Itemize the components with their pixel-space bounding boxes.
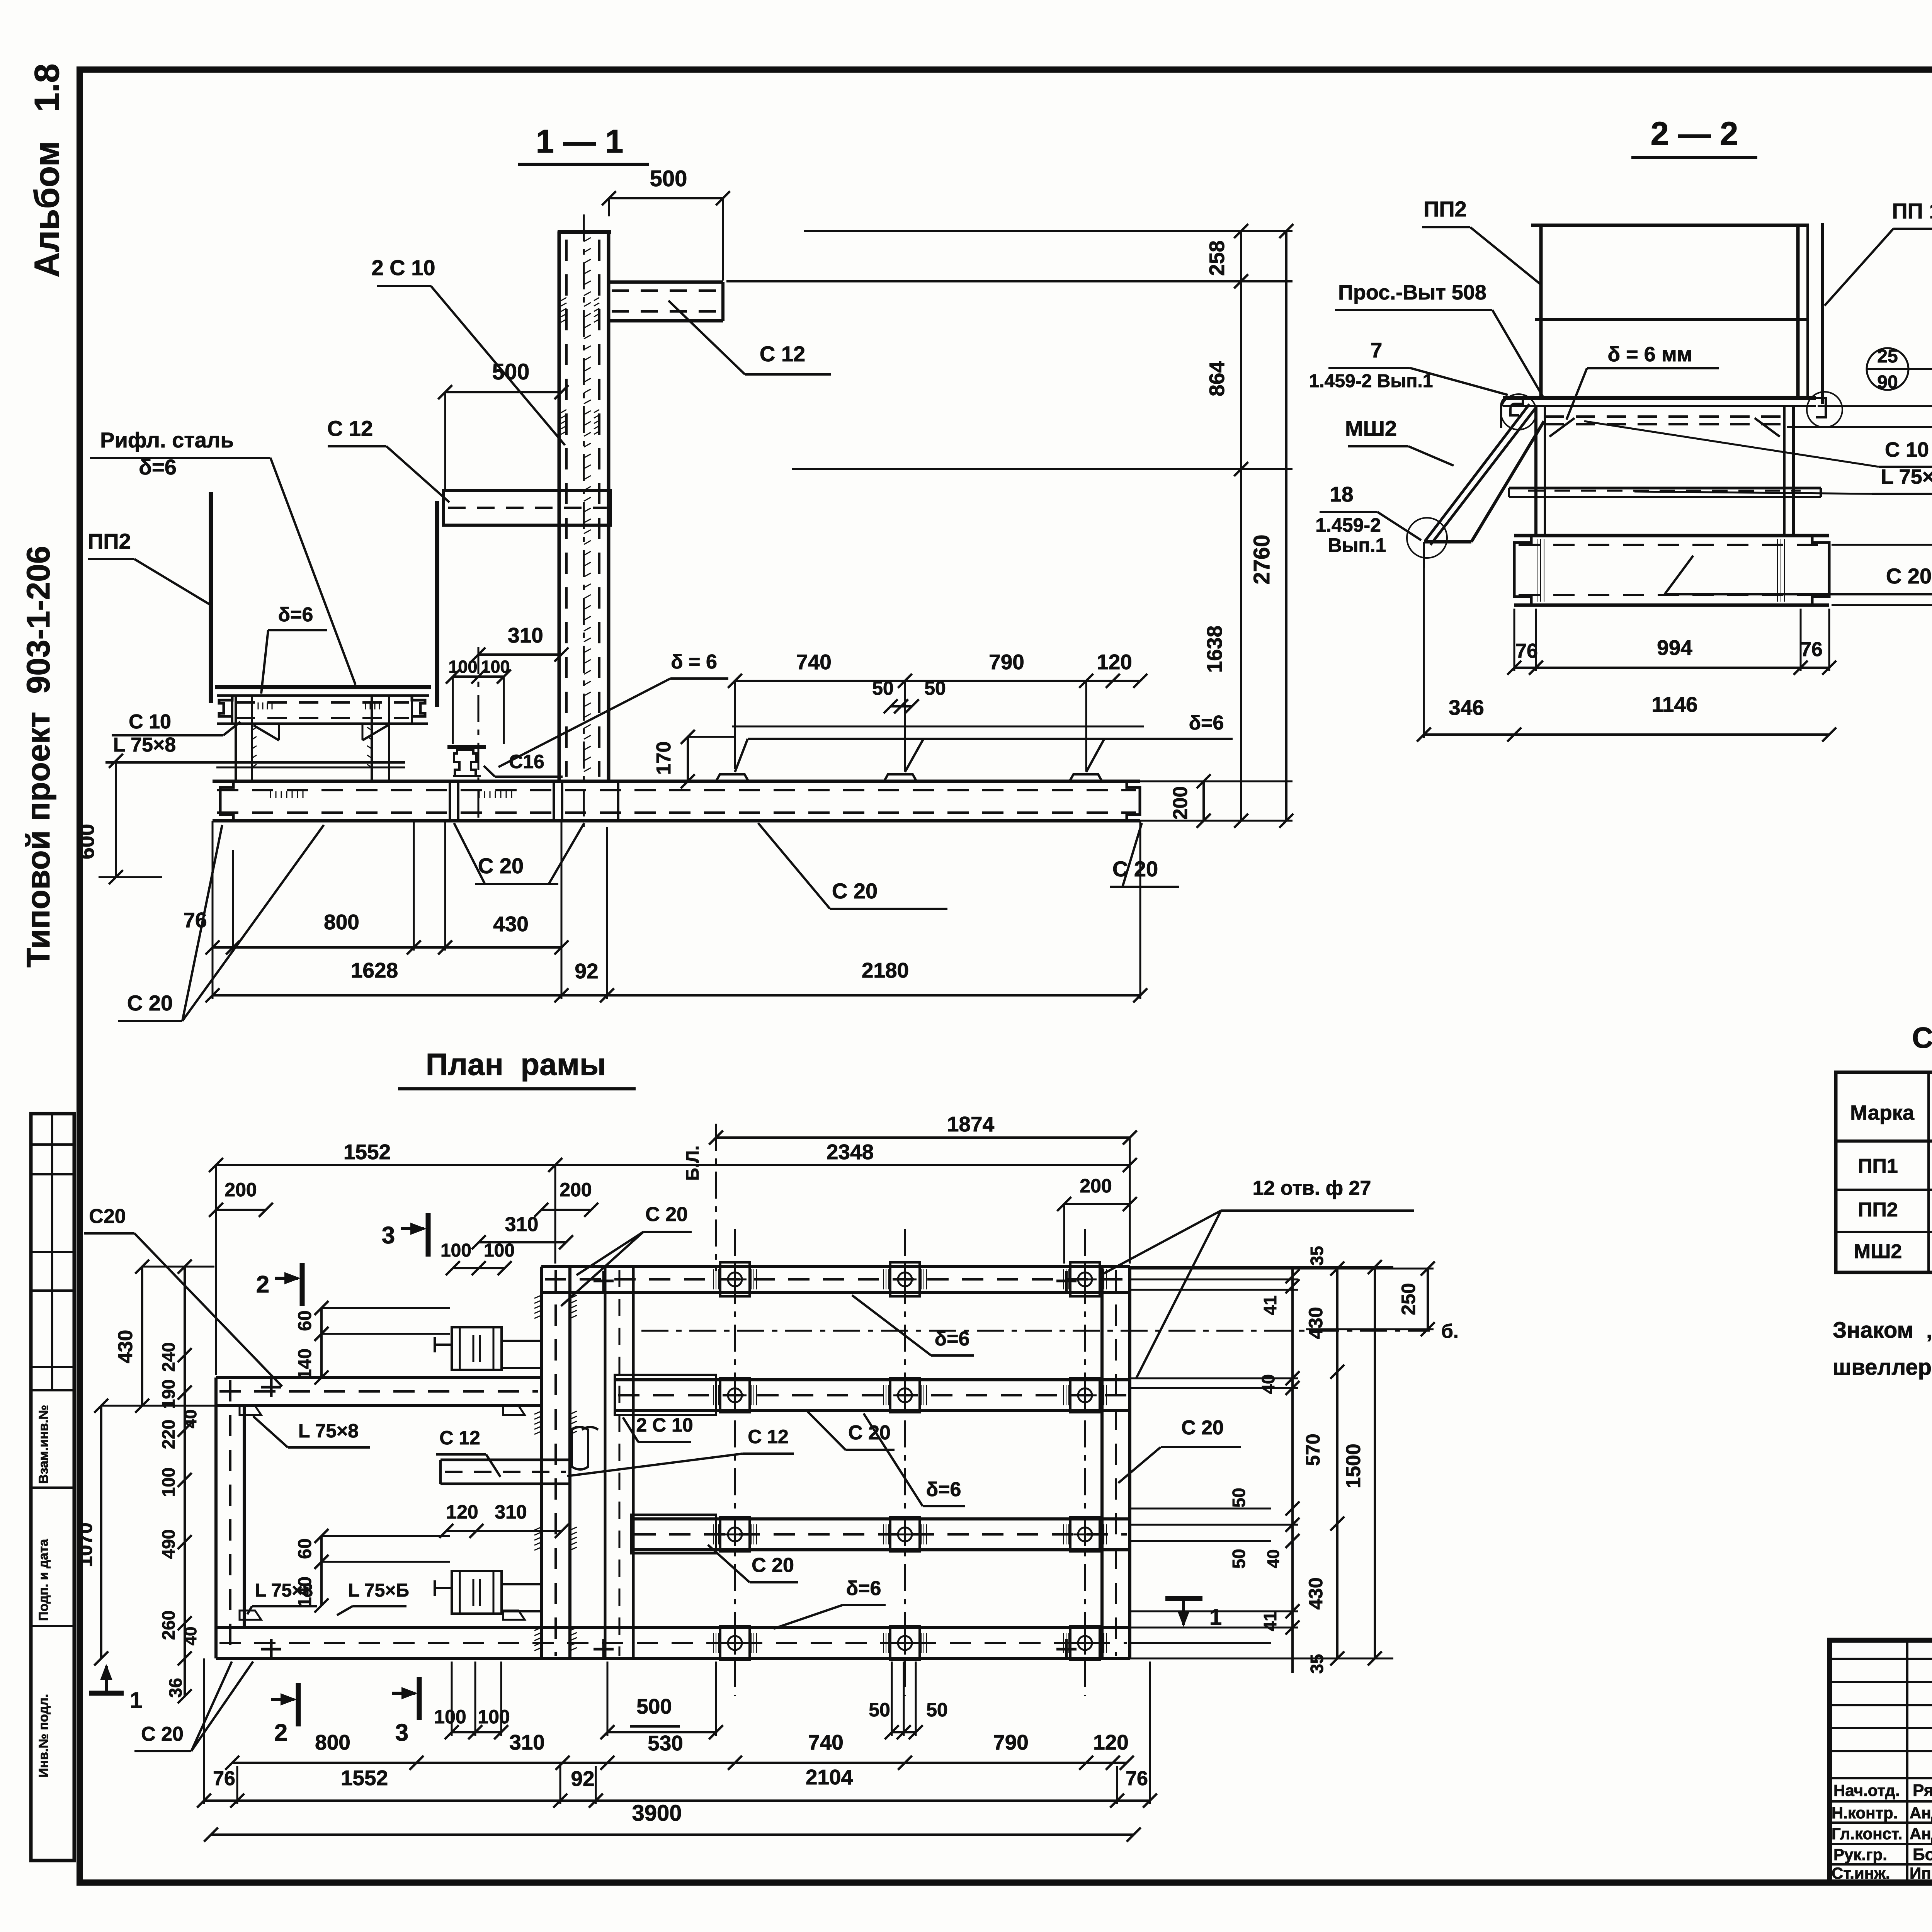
svg-text:36: 36 [165,1678,185,1697]
svg-text:90: 90 [1877,372,1898,393]
svg-text:1146: 1146 [1651,692,1697,716]
svg-text:50: 50 [1229,1549,1249,1568]
column 2C10 section 1-1 [558,231,561,781]
svg-text:L 75×8: L 75×8 [113,734,176,756]
platform bottom flange section 1-1 [217,723,428,725]
svg-text:310: 310 [509,1730,545,1754]
svg-text:50: 50 [1229,1488,1249,1507]
svg-text:2348: 2348 [827,1140,874,1164]
svg-text:Инв.№ подл.: Инв.№ подл. [36,1694,51,1777]
svg-text:δ=6: δ=6 [935,1328,970,1350]
platform posts section 1-1 [235,696,237,781]
svg-text:40: 40 [181,1410,200,1429]
svg-text:С 20: С 20 [1886,564,1932,588]
svg-text:δ=6: δ=6 [278,604,313,626]
svg-text:260: 260 [158,1611,179,1640]
spec table verticals [1927,1072,1930,1272]
svg-text:С 12: С 12 [327,416,373,440]
svg-text:35: 35 [1307,1246,1327,1265]
svg-text:ПП2: ПП2 [1858,1199,1898,1221]
svg-text:120: 120 [1097,650,1132,674]
title block left signature columns [1906,1640,1908,1883]
svg-text:190: 190 [158,1379,179,1409]
svg-text:δ = 6 мм: δ = 6 мм [1607,343,1692,366]
plan left portion top channel [216,1376,541,1379]
svg-text:Ст.инж.: Ст.инж. [1832,1864,1890,1882]
svg-text:50: 50 [869,1699,890,1721]
title block outer frame [1830,1640,1932,1883]
svg-text:С 12: С 12 [760,342,805,366]
svg-text:2104: 2104 [806,1765,853,1789]
svg-text:200: 200 [560,1179,592,1201]
svg-text:41: 41 [1260,1295,1280,1315]
svg-text:140: 140 [295,1349,315,1379]
plan extension lines right [1130,1266,1393,1268]
marker circle 25 90 [1867,348,1908,390]
svg-text:200: 200 [224,1179,257,1201]
plan central column weld ticks [534,1295,541,1298]
svg-text:40: 40 [1258,1374,1278,1394]
svg-text:С 12: С 12 [439,1427,480,1449]
svg-text:1 — 1: 1 — 1 [536,123,624,160]
middle beam C12 section 1-1 [444,490,611,525]
svg-text:200: 200 [1080,1175,1112,1197]
base channel section 2-2 [1514,534,1829,537]
svg-text:1.459-2: 1.459-2 [1315,514,1381,536]
plan central column lines [540,1267,543,1658]
section mark 1 right plan [1165,1596,1202,1601]
svg-text:С16: С16 [509,751,544,772]
svg-text:170: 170 [653,742,675,775]
svg-text:35: 35 [1307,1654,1327,1673]
left stamp column box [31,1114,74,1861]
plan axis b horizontal [641,1330,1430,1332]
svg-text:2: 2 [256,1271,269,1298]
stamp column divider [51,1114,53,1390]
svg-text:3900: 3900 [632,1801,682,1826]
svg-text:76: 76 [1126,1767,1148,1790]
svg-text:МШ2: МШ2 [1345,416,1397,440]
svg-text:1.459-2 Вып.1: 1.459-2 Вып.1 [1309,371,1433,391]
svg-text:310: 310 [505,1213,539,1236]
plan right edge channel [1100,1267,1104,1658]
svg-text:L 75×8: L 75×8 [298,1420,359,1442]
svg-text:Андриевская: Андриевская [1910,1825,1932,1843]
svg-text:2 — 2: 2 — 2 [1651,116,1738,152]
plan rail3 left stub [631,1515,716,1553]
svg-text:740: 740 [808,1730,844,1754]
svg-text:60: 60 [295,1310,315,1331]
svg-text:120: 120 [446,1501,478,1523]
plan rail2 left stub 2C10 [615,1375,716,1415]
svg-text:864: 864 [1205,361,1229,396]
svg-text:100: 100 [434,1706,466,1728]
svg-text:ПП2: ПП2 [1423,197,1467,221]
svg-text:430: 430 [114,1330,137,1364]
plan C12 stub beam [440,1459,570,1461]
svg-text:430: 430 [493,912,529,936]
svg-text:40: 40 [181,1627,200,1646]
guard rail PP2 top section 2-2 [1531,224,1809,227]
svg-text:Андриевская: Андриевская [1910,1804,1932,1822]
svg-text:1552: 1552 [344,1140,391,1164]
svg-text:2760: 2760 [1249,534,1274,584]
spec table horizontals [1836,1139,1932,1143]
svg-text:С 20: С 20 [645,1203,688,1226]
svg-text:490: 490 [158,1529,179,1559]
plan clamp C16 bottom [452,1571,502,1614]
svg-text:40: 40 [1264,1549,1283,1568]
svg-text:18: 18 [1330,482,1353,506]
top bracket beam C12 section 1-1 [609,281,723,284]
svg-text:500: 500 [636,1694,672,1718]
svg-text:1070: 1070 [74,1522,97,1567]
plan 2C10 column lines [604,1267,607,1658]
svg-text:δ=6: δ=6 [846,1577,881,1600]
svg-text:800: 800 [315,1730,350,1754]
svg-text:1628: 1628 [351,958,398,982]
svg-text:L 75×Б: L 75×Б [348,1580,409,1601]
svg-text:500: 500 [650,166,687,191]
svg-text:530: 530 [648,1731,683,1755]
svg-text:120: 120 [1093,1730,1129,1754]
svg-text:50: 50 [872,677,894,699]
under-floor beam C10 section 2-2 [1545,415,1784,418]
svg-text:Рифл. сталь: Рифл. сталь [100,428,234,452]
svg-text:2: 2 [274,1719,287,1746]
svg-text:С 20: С 20 [478,854,524,878]
svg-text:76: 76 [1515,640,1538,662]
svg-text:76: 76 [213,1767,235,1790]
plan rail 3 [631,1517,1130,1520]
angle L75x8 long line section 1-1 [105,761,405,764]
long extension lines top right section 1-1 [804,230,1293,232]
svg-text:Марка: Марка [1850,1101,1915,1124]
plan bolt pads row 4 [720,1626,750,1660]
guard post right section 1-1 [435,501,439,707]
svg-text:430: 430 [1305,1307,1327,1339]
section mark 1 left plan [89,1691,124,1696]
svg-text:С 10: С 10 [1885,438,1929,461]
svg-text:δ = 6: δ = 6 [671,651,717,673]
svg-text:500: 500 [492,359,530,384]
stamp column row lines [31,1143,74,1146]
svg-text:С20: С20 [89,1205,126,1228]
plan right dimension 430 570 430 [1336,1267,1338,1658]
svg-text:7: 7 [1371,338,1383,362]
plan bolt pads row 2 [720,1378,750,1412]
guard posts section 2-2 [1539,225,1543,398]
platform deck section 1-1 [215,685,431,689]
hook detail right platform edge section 2-2 [1816,398,1826,417]
svg-text:δ=6: δ=6 [1189,712,1224,734]
svg-text:12 отв. ф 27: 12 отв. ф 27 [1253,1177,1371,1199]
svg-text:740: 740 [796,650,832,674]
svg-text:Альбом 1.8: Альбом 1.8 [28,63,66,277]
svg-text:Ипполитова: Ипполитова [1910,1864,1932,1882]
svg-text:100: 100 [440,1240,471,1261]
plan plus marks [261,1386,281,1389]
svg-text:2 С 10: 2 С 10 [636,1414,693,1436]
svg-text:100: 100 [484,1240,515,1261]
svg-text:С 20: С 20 [832,879,878,903]
plan right portion top rail C20 [541,1265,1130,1268]
svg-text:1552: 1552 [341,1766,388,1790]
platform beam dashed lines section 1-1 [236,701,409,704]
ladder MSh2 section 2-2 [1425,404,1529,541]
svg-text:ПП2: ПП2 [88,529,131,553]
svg-text:800: 800 [324,910,359,934]
svg-text:200: 200 [1169,786,1192,820]
plan pad column centerlines [734,1229,736,1696]
svg-text:1: 1 [1209,1605,1222,1630]
platform braces section 1-1 [253,725,279,740]
svg-text:План рамы: План рамы [426,1047,606,1082]
plan left edge channel [214,1378,218,1658]
svg-text:Н.контр.: Н.контр. [1832,1804,1898,1822]
plan axis B.L. vertical [715,1124,717,1271]
svg-text:240: 240 [158,1342,179,1372]
plan rail 2 [615,1378,1130,1381]
svg-text:б.: б. [1441,1320,1459,1342]
anchor tabs on base section 1-1 [716,774,748,781]
svg-text:швеллера для крепления рам: швеллера для крепления рамы в полу. [1833,1355,1932,1380]
svg-text:76: 76 [183,908,207,932]
svg-text:L 75×8: L 75×8 [255,1580,313,1601]
svg-text:2 С 10: 2 С 10 [372,255,435,280]
svg-text:Б.Л.: Б.Л. [682,1146,702,1181]
svg-text:220: 220 [158,1420,179,1449]
svg-text:Типовой проект 903-1-206: Типовой проект 903-1-206 [20,546,56,968]
svg-text:ПП1: ПП1 [1858,1155,1898,1177]
platform C10 beam right end section 1-1 [412,696,425,716]
plan bolt pads row 1 [720,1262,750,1296]
svg-text:1: 1 [130,1688,142,1713]
svg-text:310: 310 [495,1501,527,1523]
plan right fine chain [1291,1267,1294,1673]
svg-text:Рябуха: Рябуха [1913,1781,1932,1800]
svg-text:1500: 1500 [1342,1444,1365,1488]
svg-text:С 20: С 20 [848,1422,891,1444]
svg-text:ПП 1: ПП 1 [1892,199,1932,223]
svg-text:С 20: С 20 [752,1554,794,1577]
svg-text:1874: 1874 [947,1112,995,1136]
svg-text:С 20: С 20 [1181,1417,1224,1439]
svg-text:1638: 1638 [1202,626,1226,673]
svg-text:92: 92 [571,1767,594,1791]
mid angle band section 2-2 [1509,487,1821,490]
plan left fine chain [184,1267,186,1696]
hook detail left platform edge section 2-2 [1501,397,1523,428]
svg-text:Спецификация типовых элементо: Спецификация типовых элементов [1912,1022,1932,1054]
svg-text:Взам.инв.№: Взам.инв.№ [36,1405,51,1484]
guard post PP2 left section 1-1 [209,492,213,703]
svg-text:Подп. и дата: Подп. и дата [36,1539,51,1621]
plan corner angles L75 [240,1406,261,1415]
svg-text:С 20: С 20 [1112,857,1158,881]
svg-text:Рук.гр.: Рук.гр. [1833,1845,1887,1864]
svg-text:60: 60 [295,1538,315,1559]
guard post PP1 section 2-2 [1821,223,1824,404]
svg-text:Знаком „+" обозначены отверс: Знаком „+" обозначены отверстия ф 23 мм … [1833,1318,1932,1343]
svg-text:25: 25 [1877,346,1898,367]
svg-text:790: 790 [993,1730,1029,1754]
plan bottom rail C20 [216,1626,1130,1629]
spec table frame [1836,1072,1932,1272]
extension lines right of base section 1-1 [1140,781,1293,782]
svg-text:С 10: С 10 [129,711,171,733]
platform weld ticks section 1-1 [258,702,259,709]
svg-text:3: 3 [395,1719,408,1746]
platform floor section 2-2 [1503,396,1816,400]
svg-text:МШ2: МШ2 [1854,1240,1902,1263]
svg-text:3: 3 [382,1222,395,1249]
svg-text:С 20: С 20 [141,1723,184,1745]
svg-text:430: 430 [1305,1577,1327,1609]
svg-text:600: 600 [75,824,99,859]
svg-text:50: 50 [926,1699,948,1721]
svg-text:С 20: С 20 [127,991,173,1015]
svg-text:310: 310 [508,623,543,647]
title block left grid rows [1830,1658,1932,1660]
svg-text:Прос.-Выт 508: Прос.-Выт 508 [1338,281,1486,304]
svg-text:L 75×8: L 75×8 [1881,465,1932,488]
svg-text:Нач.отд.: Нач.отд. [1833,1781,1900,1799]
svg-text:Бобрук: Бобрук [1913,1845,1932,1864]
svg-text:50: 50 [924,677,946,699]
svg-text:δ=6: δ=6 [926,1478,961,1501]
svg-text:100: 100 [478,1706,510,1728]
svg-text:100: 100 [158,1468,179,1497]
platform C10 beam left end section 1-1 [219,696,232,716]
svg-text:346: 346 [1449,696,1484,719]
svg-text:92: 92 [575,959,598,983]
svg-text:100: 100 [448,657,477,677]
rail clamp C16 section 1-1 [447,745,486,749]
svg-text:2180: 2180 [862,958,909,982]
plan bolt pads row 3 [720,1517,750,1551]
svg-text:С 12: С 12 [748,1426,789,1447]
frame columns section 2-2 [1534,406,1537,536]
svg-text:Вып.1: Вып.1 [1328,534,1386,556]
svg-text:250: 250 [1398,1283,1419,1315]
base channel C20 section 1-1 [213,780,1140,783]
svg-text:570: 570 [1302,1434,1324,1466]
svg-text:76: 76 [1800,638,1823,661]
svg-text:994: 994 [1657,636,1692,660]
svg-text:Гл.конст.: Гл.конст. [1832,1825,1902,1843]
plan clamp C16 top [452,1327,502,1370]
svg-text:258: 258 [1205,240,1229,276]
plan 2C10 profile symbol [572,1427,598,1469]
svg-text:790: 790 [989,650,1024,674]
